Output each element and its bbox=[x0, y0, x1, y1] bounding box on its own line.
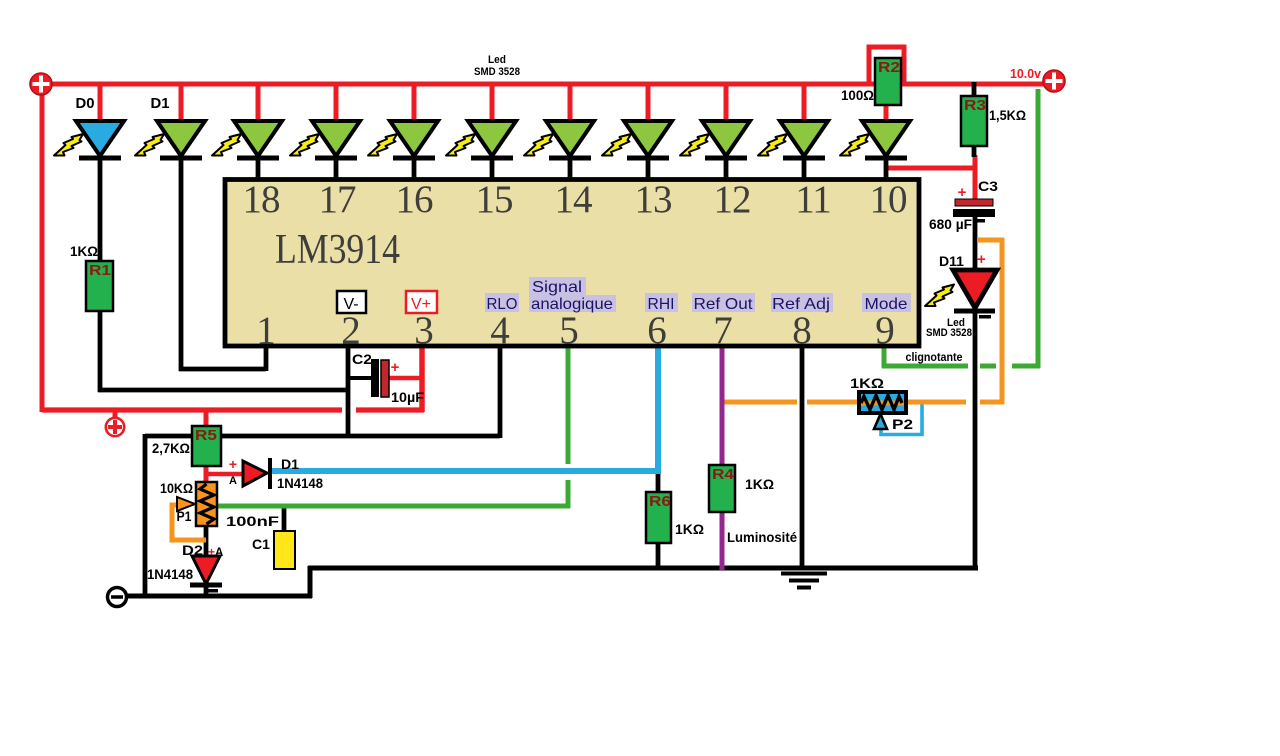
svg-text:5: 5 bbox=[559, 309, 579, 352]
svg-text:Signal: Signal bbox=[532, 279, 582, 296]
svg-text:+: + bbox=[208, 545, 215, 559]
svg-text:Luminosité: Luminosité bbox=[727, 530, 797, 545]
svg-text:7: 7 bbox=[713, 309, 733, 352]
svg-text:R1: R1 bbox=[89, 262, 111, 279]
svg-text:SMD 3528: SMD 3528 bbox=[926, 327, 972, 339]
svg-text:R4: R4 bbox=[712, 466, 735, 483]
svg-text:1,5KΩ: 1,5KΩ bbox=[989, 108, 1026, 123]
svg-text:A: A bbox=[229, 475, 237, 487]
svg-text:1KΩ: 1KΩ bbox=[675, 522, 704, 537]
svg-text:1KΩ: 1KΩ bbox=[850, 375, 884, 391]
svg-text:D1: D1 bbox=[151, 95, 170, 112]
svg-text:14: 14 bbox=[555, 178, 593, 221]
svg-text:3: 3 bbox=[414, 309, 434, 352]
svg-text:12: 12 bbox=[714, 178, 751, 221]
svg-text:680 µF: 680 µF bbox=[929, 217, 972, 232]
svg-text:Ref Adj: Ref Adj bbox=[772, 296, 830, 313]
svg-text:P1: P1 bbox=[177, 509, 192, 524]
svg-text:R2: R2 bbox=[878, 59, 900, 76]
svg-text:C1: C1 bbox=[252, 537, 271, 552]
svg-text:LM3914: LM3914 bbox=[275, 227, 400, 273]
svg-text:P2: P2 bbox=[892, 416, 913, 432]
svg-text:SMD 3528: SMD 3528 bbox=[474, 66, 520, 78]
svg-text:1KΩ: 1KΩ bbox=[70, 244, 98, 259]
svg-text:9: 9 bbox=[875, 309, 895, 352]
svg-text:8: 8 bbox=[792, 309, 812, 352]
svg-text:100Ω: 100Ω bbox=[841, 88, 874, 103]
svg-text:10µF: 10µF bbox=[391, 390, 424, 405]
svg-text:C3: C3 bbox=[978, 179, 999, 194]
svg-text:D1: D1 bbox=[281, 457, 300, 472]
svg-text:+: + bbox=[958, 184, 967, 201]
svg-text:15: 15 bbox=[476, 178, 513, 221]
svg-text:10: 10 bbox=[870, 178, 908, 221]
svg-text:10.0v: 10.0v bbox=[1010, 67, 1041, 81]
svg-text:Mode: Mode bbox=[865, 296, 908, 313]
svg-text:2,7KΩ: 2,7KΩ bbox=[152, 441, 190, 456]
svg-text:+: + bbox=[391, 359, 400, 376]
svg-text:1N4148: 1N4148 bbox=[147, 567, 193, 582]
svg-text:6: 6 bbox=[647, 309, 667, 352]
svg-text:1N4148: 1N4148 bbox=[277, 476, 323, 491]
svg-text:+: + bbox=[977, 251, 986, 268]
svg-text:RHI: RHI bbox=[648, 296, 675, 313]
svg-text:RLO: RLO bbox=[487, 296, 518, 313]
svg-text:10KΩ: 10KΩ bbox=[160, 481, 193, 496]
svg-text:16: 16 bbox=[396, 178, 434, 221]
svg-text:R3: R3 bbox=[964, 97, 986, 114]
svg-text:C2: C2 bbox=[352, 352, 372, 367]
svg-text:100nF: 100nF bbox=[226, 513, 280, 529]
svg-text:18: 18 bbox=[243, 178, 281, 221]
svg-text:1KΩ: 1KΩ bbox=[745, 477, 774, 492]
svg-text:R5: R5 bbox=[195, 427, 217, 444]
svg-text:Led: Led bbox=[488, 54, 506, 66]
svg-text:D0: D0 bbox=[76, 95, 95, 112]
svg-text:+: + bbox=[229, 456, 237, 472]
svg-text:clignotante: clignotante bbox=[906, 350, 963, 364]
svg-text:17: 17 bbox=[319, 178, 357, 221]
svg-text:4: 4 bbox=[490, 309, 510, 352]
svg-text:D2: D2 bbox=[182, 543, 203, 558]
svg-text:D11: D11 bbox=[939, 254, 965, 269]
svg-text:R6: R6 bbox=[649, 493, 671, 510]
svg-text:13: 13 bbox=[635, 178, 672, 221]
svg-text:analogique: analogique bbox=[531, 296, 613, 313]
svg-text:11: 11 bbox=[795, 178, 831, 221]
svg-text:2: 2 bbox=[341, 309, 361, 352]
svg-text:A: A bbox=[215, 547, 223, 559]
svg-text:V+: V+ bbox=[411, 296, 431, 313]
svg-text:V-: V- bbox=[343, 296, 358, 313]
svg-text:Ref Out: Ref Out bbox=[694, 296, 754, 313]
svg-text:1: 1 bbox=[256, 309, 276, 352]
